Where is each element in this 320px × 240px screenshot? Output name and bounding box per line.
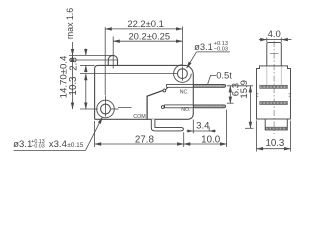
- svg-text:3.4: 3.4: [196, 120, 210, 131]
- svg-text:10.3: 10.3: [68, 77, 79, 96]
- dim 20.2 extension line at plunger center: [112, 37, 114, 69]
- plunger hidden lines: [266, 66, 268, 85]
- bottom label dia 3.1 x 3.4: [13, 117, 102, 150]
- hole centerline ticks bottom-left: [105, 96, 107, 117]
- pivot rivet NC: [163, 89, 166, 92]
- side terminal row 2 (NO): [260, 102, 288, 105]
- dim 15.9 extension line: [245, 127, 254, 129]
- svg-text:NC.: NC.: [180, 89, 189, 95]
- rivet-to-blade link NC: [166, 87, 169, 89]
- mounting hole bottom-left: [97, 100, 115, 118]
- COM terminal blade: [151, 119, 183, 131]
- dim 15.9: [249, 86, 251, 129]
- svg-text:−0.03: −0.03: [31, 144, 44, 150]
- dim 3.4: [187, 130, 216, 132]
- svg-text:10.3: 10.3: [265, 138, 284, 149]
- rivet NO: [161, 106, 164, 109]
- dim 6.3: [229, 86, 231, 103]
- NC terminal blade: [167, 84, 226, 87]
- left extension line: plunger free position: [69, 54, 113, 56]
- switch body outline (front view): [95, 65, 194, 119]
- dim 10.3 (left): [85, 74, 87, 109]
- svg-text:20.2±0.25: 20.2±0.25: [128, 30, 170, 41]
- dim 10.3 (side): [257, 148, 291, 150]
- NO terminal blade: [165, 105, 226, 108]
- svg-text:x3.4: x3.4: [49, 139, 68, 150]
- side view centerline: [273, 41, 275, 134]
- left extension line: plunger operating position: [69, 59, 118, 61]
- dim 14.70+-0.4: [72, 55, 74, 109]
- side terminal row 1 (NC): [260, 85, 288, 88]
- centerline cross tick in plunger: [270, 53, 279, 55]
- svg-text:15.9: 15.9: [239, 80, 250, 99]
- svg-text:27.8: 27.8: [135, 135, 155, 146]
- plunger (front view): [108, 55, 117, 65]
- internal terminal block step: [147, 91, 163, 120]
- svg-text:NO.: NO.: [181, 107, 190, 113]
- dim 10.0: [184, 143, 227, 145]
- svg-text:max 1.6: max 1.6: [65, 8, 75, 39]
- label 0.5t (blade thickness): [208, 70, 233, 85]
- extension line: bottom hole center horizontal: [80, 108, 98, 110]
- dim 22.2 extension line at bottom hole center: [104, 27, 106, 95]
- extension line: top hole center horizontal: [80, 73, 178, 75]
- internal spring line: [118, 107, 132, 109]
- label dia 3.1 (top hole): [187, 41, 230, 68]
- dim 4.0 extension lines: [266, 38, 268, 43]
- svg-text:±0.15: ±0.15: [67, 142, 84, 149]
- side bottom boss with COM row: [265, 119, 287, 130]
- svg-text:ø3.1: ø3.1: [13, 139, 32, 150]
- dim 20.2: [113, 40, 182, 42]
- svg-text:22.2±0.1: 22.2±0.1: [127, 18, 163, 29]
- svg-text:4.0: 4.0: [268, 29, 281, 40]
- dim 3.4 extension: [192, 120, 194, 134]
- side notches: [257, 93, 259, 95]
- dim 6.3 extension lines: [227, 85, 253, 87]
- dim 10.3 (side) extension lines: [256, 121, 258, 152]
- mounting hole top-right: [174, 65, 192, 83]
- svg-text:ø3.1: ø3.1: [194, 41, 213, 52]
- dim 4.0: [259, 39, 267, 41]
- dim 22.2: [105, 28, 182, 30]
- side plunger: [267, 43, 282, 66]
- side body: [257, 66, 291, 119]
- dim extension line at top hole center: [181, 27, 183, 67]
- svg-text:10.0: 10.0: [201, 135, 221, 146]
- hole centerline ticks top-right: [181, 67, 183, 81]
- bottom dim extension lines: [94, 121, 96, 147]
- dim 2.8: [85, 49, 87, 56]
- svg-text:0.5t: 0.5t: [216, 70, 232, 81]
- left extension line: body top: [80, 64, 95, 66]
- svg-text:2.8: 2.8: [68, 57, 79, 70]
- dim 27.8: [95, 143, 184, 145]
- svg-text:COM: COM: [133, 114, 146, 120]
